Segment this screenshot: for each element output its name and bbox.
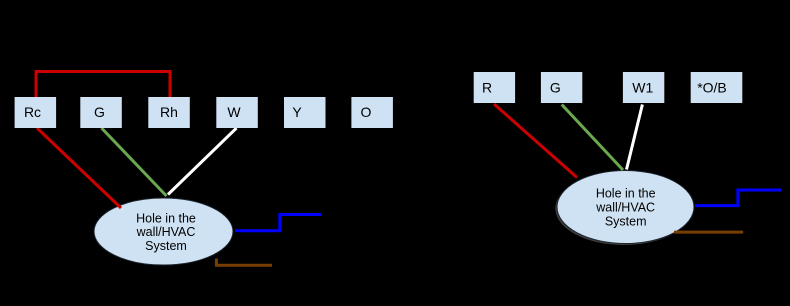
terminal Rc: [15, 97, 57, 128]
wire blue left: [235, 215, 322, 231]
svg-text:System: System: [145, 239, 187, 253]
terminal O/B: [691, 72, 743, 103]
node HVAC right (ellipse): [557, 171, 694, 244]
svg-text:O: O: [361, 104, 372, 120]
svg-text:Hole in the: Hole in the: [136, 211, 196, 225]
wire brown left: [216, 259, 272, 266]
svg-text:Rh: Rh: [160, 104, 178, 120]
svg-text:System: System: [605, 214, 647, 228]
svg-text:W1: W1: [632, 80, 653, 96]
svg-text:wall/HVAC: wall/HVAC: [136, 225, 196, 239]
svg-text:W: W: [227, 104, 241, 120]
wire R to HVAC (red): [494, 104, 577, 178]
svg-text:R: R: [482, 80, 492, 96]
terminal O: [351, 97, 393, 128]
node HVAC right shadow: [555, 172, 692, 245]
svg-text:Hole in the: Hole in the: [596, 187, 656, 201]
wire red jumper Rc-Rh: [36, 72, 170, 99]
wire blue right: [695, 190, 781, 206]
terminal G right: [541, 72, 582, 103]
terminal Y: [284, 97, 326, 128]
wire brown right: [674, 231, 743, 234]
wire G to HVAC (green): [102, 128, 167, 196]
wire G to HVAC right (green): [562, 105, 623, 171]
svg-text:G: G: [550, 80, 561, 96]
terminal W1: [623, 72, 664, 103]
wire Rc to HVAC (red): [37, 128, 121, 208]
node HVAC left (ellipse): [94, 198, 233, 265]
svg-text:G: G: [94, 104, 105, 120]
svg-text:Rc: Rc: [24, 104, 41, 120]
terminal Rh: [148, 97, 190, 128]
svg-text:*O/B: *O/B: [697, 80, 727, 96]
svg-text:Y: Y: [292, 104, 302, 120]
terminal R: [474, 72, 515, 103]
wire W1 to HVAC (white): [627, 105, 643, 170]
terminal G left: [80, 97, 122, 128]
wire W to HVAC (white): [168, 128, 237, 195]
terminal W: [216, 97, 257, 128]
svg-text:wall/HVAC: wall/HVAC: [595, 201, 655, 215]
